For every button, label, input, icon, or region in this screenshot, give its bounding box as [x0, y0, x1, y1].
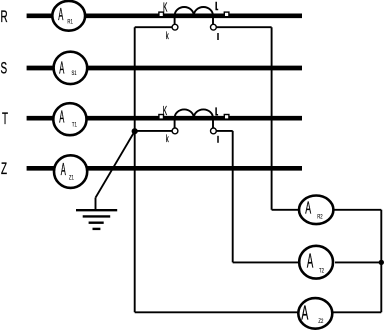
ammeter A_T1 — [53, 103, 86, 135]
wire busbar R — [27, 13, 302, 18]
wire CT1 k to left trunk — [135, 26, 173, 28]
svg-text:T: T — [2, 109, 8, 127]
wire busbar S — [27, 66, 302, 71]
svg-text:K: K — [163, 105, 167, 119]
terminal l CT2 — [211, 128, 217, 134]
terminal k CT2 — [172, 128, 178, 134]
wire CT1 l to right trunk — [217, 26, 272, 28]
transformer CT2 primary terminal K — [159, 115, 164, 120]
ground — [76, 198, 117, 229]
svg-text:Z2: Z2 — [318, 319, 323, 326]
ammeter A_Z2 — [298, 298, 332, 329]
wire diagonal to ground — [96, 131, 135, 198]
terminal k CT1 — [172, 24, 178, 30]
svg-text:A: A — [301, 303, 308, 324]
svg-text:k: k — [166, 29, 169, 41]
ammeter A_T2 — [299, 246, 333, 279]
terminal l CT1 — [211, 24, 217, 30]
wire CT1 stub k — [174, 17, 176, 25]
svg-text:A: A — [305, 198, 311, 218]
wire down to A_T2 — [232, 131, 234, 263]
wire A_T2 to right rail — [335, 261, 381, 263]
wire right rail to A_Z2 — [332, 311, 381, 313]
svg-text:T2: T2 — [319, 268, 324, 275]
junction ground tap — [132, 128, 138, 134]
svg-text:A: A — [58, 5, 63, 25]
ammeter A_R1 — [52, 1, 85, 31]
junction right rail — [379, 260, 384, 265]
wire CT2 stub l — [212, 119, 214, 128]
svg-text:A: A — [59, 107, 64, 127]
wire right rail vertical — [380, 210, 382, 312]
ammeter A_Z1 — [54, 155, 87, 188]
wire CT2 k to junction — [135, 130, 173, 132]
wire A_R2 to right rail — [333, 209, 381, 211]
svg-text:A: A — [307, 250, 314, 273]
ammeter A_S1 — [54, 52, 88, 84]
wire into A_T2 — [233, 261, 299, 263]
transformer CT2 primary terminal L — [224, 115, 229, 120]
svg-text:R1: R1 — [67, 19, 72, 26]
label l CT1 — [217, 33, 219, 40]
svg-text:K: K — [163, 1, 167, 15]
wire into A_R2 — [272, 209, 299, 211]
svg-text:R: R — [1, 7, 8, 25]
svg-text:k: k — [166, 132, 169, 144]
svg-text:Z: Z — [1, 159, 7, 177]
transformer CT1 secondary coil — [175, 7, 213, 16]
wire busbar Z — [27, 166, 302, 171]
svg-text:A: A — [59, 58, 64, 78]
ammeter A_R2 — [299, 196, 333, 225]
transformer CT1 primary terminal L — [224, 12, 229, 17]
wire busbar T — [27, 116, 302, 121]
svg-text:S: S — [1, 59, 8, 77]
label L CT2 — [216, 107, 218, 114]
svg-text:Z1: Z1 — [69, 175, 74, 182]
wire CT2 l run right — [217, 130, 233, 132]
wire CT1 stub l — [212, 17, 214, 25]
wire right trunk vertical — [271, 27, 273, 210]
transformer CT1 primary terminal K — [159, 12, 164, 17]
svg-text:S1: S1 — [72, 70, 77, 77]
svg-text:A: A — [61, 159, 66, 179]
transformer CT2 secondary coil — [175, 109, 213, 118]
wire left trunk vertical — [134, 27, 136, 312]
wire CT2 stub k — [174, 119, 176, 128]
label L CT1 — [216, 2, 218, 10]
svg-text:T1: T1 — [72, 122, 77, 129]
label l CT2 — [217, 136, 219, 143]
svg-text:R2: R2 — [317, 214, 322, 221]
wire bottom run to A_Z2 — [135, 311, 299, 313]
